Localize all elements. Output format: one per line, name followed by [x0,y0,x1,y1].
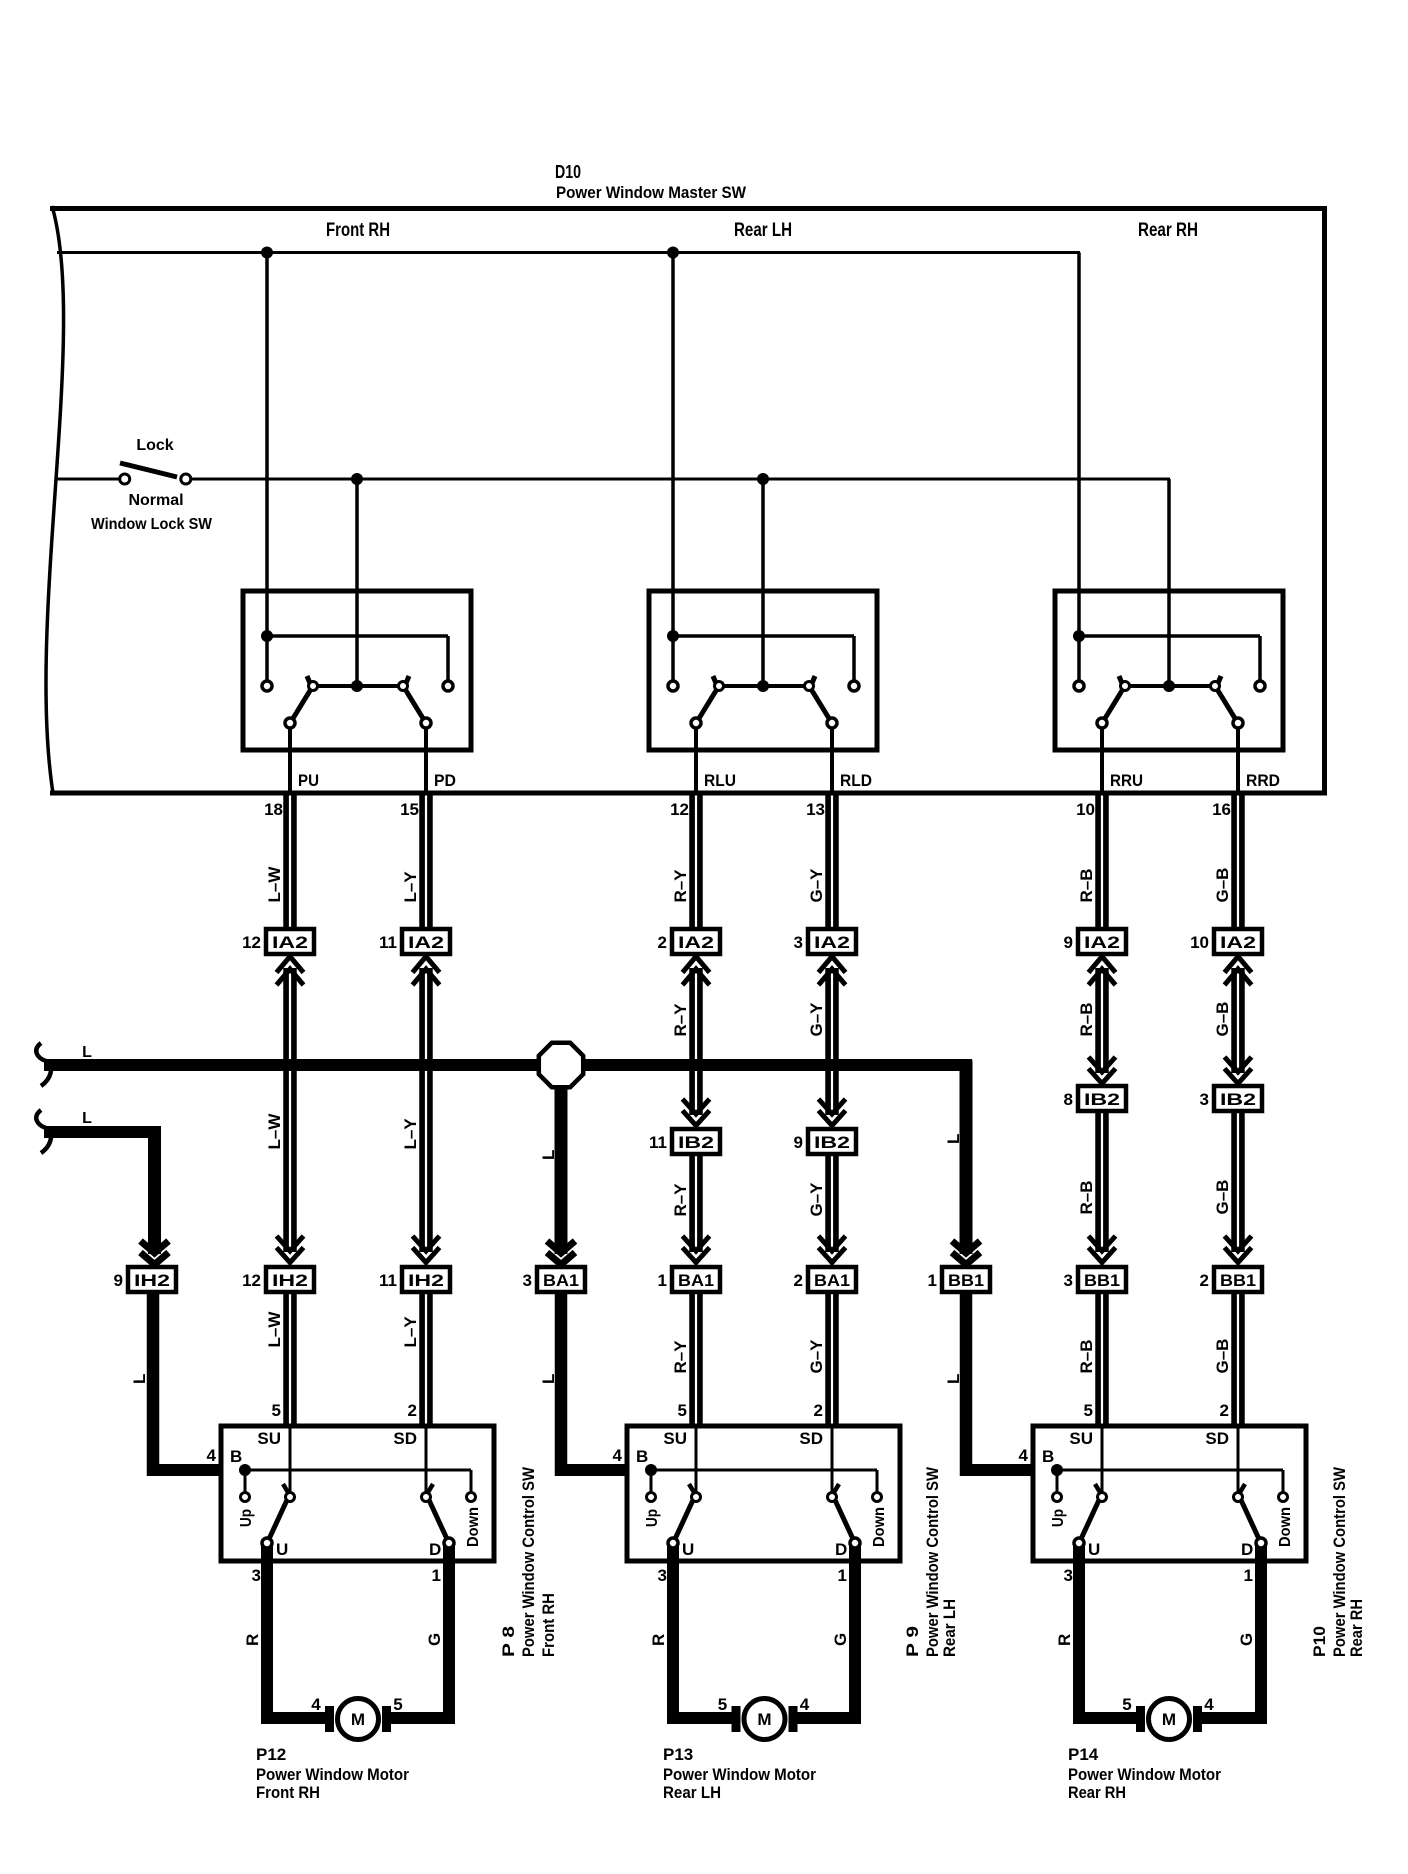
svg-text:Power Window Motor: Power Window Motor [256,1765,409,1784]
svg-text:L: L [944,1134,963,1144]
svg-text:3: 3 [1064,1271,1073,1290]
svg-text:L–Y: L–Y [401,1316,420,1348]
svg-text:M: M [1162,1710,1176,1729]
svg-text:3: 3 [658,1566,667,1585]
svg-text:G–B: G–B [1213,868,1232,903]
svg-text:P 8: P 8 [499,1626,518,1657]
svg-text:18: 18 [264,800,283,819]
svg-text:L–Y: L–Y [401,1118,420,1150]
svg-text:IH2: IH2 [408,1271,444,1290]
svg-text:3: 3 [794,933,803,952]
svg-text:U: U [682,1540,694,1559]
svg-text:R–Y: R–Y [671,869,690,903]
svg-text:Down: Down [465,1507,482,1547]
svg-text:U: U [1088,1540,1100,1559]
svg-text:SD: SD [799,1429,823,1448]
svg-text:5: 5 [1122,1695,1131,1714]
svg-text:BA1: BA1 [678,1271,714,1290]
svg-text:13: 13 [806,800,825,819]
svg-text:12: 12 [242,1271,261,1290]
svg-text:Down: Down [1277,1507,1294,1547]
svg-text:SD: SD [1205,1429,1229,1448]
svg-text:IB2: IB2 [1220,1090,1256,1109]
svg-text:9: 9 [1064,933,1073,952]
svg-text:Up: Up [1050,1509,1067,1527]
svg-text:Up: Up [238,1509,255,1527]
svg-text:SU: SU [1069,1429,1093,1448]
svg-text:4: 4 [1019,1446,1029,1465]
svg-text:D: D [429,1540,441,1559]
svg-text:RLD: RLD [840,771,872,790]
svg-text:BB1: BB1 [948,1271,984,1290]
svg-text:4: 4 [311,1695,321,1714]
svg-text:R–Y: R–Y [671,1003,690,1037]
svg-text:1: 1 [838,1566,847,1585]
svg-text:Rear LH: Rear LH [734,220,792,241]
svg-text:4: 4 [800,1695,810,1714]
svg-text:R: R [1055,1634,1074,1646]
svg-text:Power Window Motor: Power Window Motor [1068,1765,1221,1784]
svg-text:3: 3 [252,1566,261,1585]
svg-text:Normal: Normal [128,492,183,509]
svg-text:2: 2 [658,933,667,952]
svg-text:Down: Down [871,1507,888,1547]
svg-text:L–W: L–W [265,1113,284,1150]
svg-text:2: 2 [408,1401,417,1420]
svg-text:Front RH: Front RH [256,1783,320,1802]
svg-text:R–B: R–B [1077,1002,1096,1036]
svg-text:Front RH: Front RH [539,1593,558,1657]
svg-text:1: 1 [658,1271,667,1290]
svg-text:10: 10 [1076,800,1095,819]
svg-text:12: 12 [242,933,261,952]
svg-text:1: 1 [928,1271,937,1290]
svg-text:11: 11 [649,1133,667,1152]
svg-text:IA2: IA2 [678,933,714,952]
svg-text:L: L [539,1150,558,1160]
svg-text:SD: SD [393,1429,417,1448]
svg-text:IB2: IB2 [1084,1090,1120,1109]
svg-text:B: B [1042,1447,1054,1466]
svg-text:R–Y: R–Y [671,1183,690,1217]
svg-text:R–B: R–B [1077,868,1096,902]
svg-text:Lock: Lock [136,437,173,454]
svg-text:2: 2 [1220,1401,1229,1420]
svg-text:G–Y: G–Y [807,868,826,903]
svg-text:11: 11 [379,933,397,952]
svg-text:5: 5 [718,1695,727,1714]
svg-text:P10: P10 [1310,1626,1329,1657]
svg-text:IA2: IA2 [408,933,444,952]
svg-text:Rear LH: Rear LH [663,1783,721,1802]
svg-text:5: 5 [1084,1401,1093,1420]
svg-text:R–B: R–B [1077,1339,1096,1373]
svg-text:Rear RH: Rear RH [1347,1599,1366,1657]
svg-text:L: L [130,1374,149,1384]
svg-text:Power Window Motor: Power Window Motor [663,1765,816,1784]
svg-text:15: 15 [400,800,419,819]
svg-text:4: 4 [207,1446,217,1465]
svg-text:IH2: IH2 [272,1271,308,1290]
svg-text:SU: SU [257,1429,281,1448]
svg-text:IA2: IA2 [814,933,850,952]
svg-text:RLU: RLU [704,771,736,790]
svg-text:G: G [1237,1633,1256,1646]
svg-text:BA1: BA1 [543,1271,579,1290]
svg-text:IA2: IA2 [272,933,308,952]
svg-text:5: 5 [272,1401,281,1420]
svg-text:L: L [539,1374,558,1384]
svg-text:Rear LH: Rear LH [940,1599,959,1657]
svg-text:L–Y: L–Y [401,871,420,903]
svg-text:PU: PU [298,771,319,790]
svg-text:G: G [831,1633,850,1646]
svg-text:D: D [1241,1540,1253,1559]
svg-text:M: M [757,1710,771,1729]
svg-text:2: 2 [794,1271,803,1290]
svg-text:R: R [243,1634,262,1646]
svg-text:D10: D10 [555,162,581,182]
svg-text:2: 2 [1200,1271,1209,1290]
svg-text:G–Y: G–Y [807,1182,826,1217]
svg-text:Power Window Master SW: Power Window Master SW [556,183,747,202]
svg-text:G–B: G–B [1213,1339,1232,1374]
svg-text:9: 9 [794,1133,803,1152]
svg-text:Power Window Control SW: Power Window Control SW [519,1466,538,1657]
svg-text:BB1: BB1 [1084,1271,1120,1290]
svg-text:12: 12 [670,800,689,819]
svg-text:D: D [835,1540,847,1559]
svg-text:P12: P12 [256,1745,286,1764]
svg-text:L: L [944,1374,963,1384]
svg-text:Up: Up [644,1509,661,1527]
svg-text:Rear RH: Rear RH [1068,1783,1126,1802]
svg-text:3: 3 [1064,1566,1073,1585]
svg-text:11: 11 [379,1271,397,1290]
svg-text:P 9: P 9 [903,1626,922,1657]
svg-text:PD: PD [434,771,456,790]
svg-text:RRD: RRD [1246,771,1280,790]
svg-text:3: 3 [523,1271,532,1290]
svg-text:IB2: IB2 [678,1133,714,1152]
svg-text:16: 16 [1212,800,1231,819]
svg-text:R: R [649,1634,668,1646]
svg-text:L: L [82,1110,92,1127]
svg-text:4: 4 [1204,1695,1214,1714]
svg-text:4: 4 [613,1446,623,1465]
svg-text:B: B [636,1447,648,1466]
svg-text:1: 1 [432,1566,441,1585]
svg-text:SU: SU [663,1429,687,1448]
svg-text:G–Y: G–Y [807,1002,826,1037]
svg-text:Window Lock SW: Window Lock SW [91,516,213,533]
svg-text:L: L [82,1044,92,1061]
svg-text:IA2: IA2 [1220,933,1256,952]
svg-text:G–B: G–B [1213,1180,1232,1215]
svg-text:Rear RH: Rear RH [1138,220,1198,241]
svg-text:IB2: IB2 [814,1133,850,1152]
svg-text:5: 5 [678,1401,687,1420]
svg-text:L–W: L–W [265,1311,284,1348]
svg-text:G: G [425,1633,444,1646]
svg-text:M: M [351,1710,365,1729]
svg-text:9: 9 [114,1271,123,1290]
svg-text:IA2: IA2 [1084,933,1120,952]
svg-text:Front RH: Front RH [326,220,390,241]
svg-text:5: 5 [393,1695,402,1714]
svg-text:1: 1 [1244,1566,1253,1585]
svg-text:R–B: R–B [1077,1180,1096,1214]
svg-text:P13: P13 [663,1745,693,1764]
svg-text:BA1: BA1 [814,1271,850,1290]
svg-text:2: 2 [814,1401,823,1420]
svg-text:RRU: RRU [1110,771,1143,790]
svg-text:P14: P14 [1068,1745,1099,1764]
svg-text:BB1: BB1 [1220,1271,1256,1290]
svg-text:B: B [230,1447,242,1466]
svg-text:G–B: G–B [1213,1002,1232,1037]
svg-text:R–Y: R–Y [671,1340,690,1374]
svg-text:U: U [276,1540,288,1559]
svg-text:G–Y: G–Y [807,1339,826,1374]
svg-text:L–W: L–W [265,866,284,903]
svg-text:3: 3 [1200,1090,1209,1109]
svg-text:10: 10 [1190,933,1209,952]
svg-text:IH2: IH2 [134,1271,170,1290]
svg-text:8: 8 [1064,1090,1073,1109]
